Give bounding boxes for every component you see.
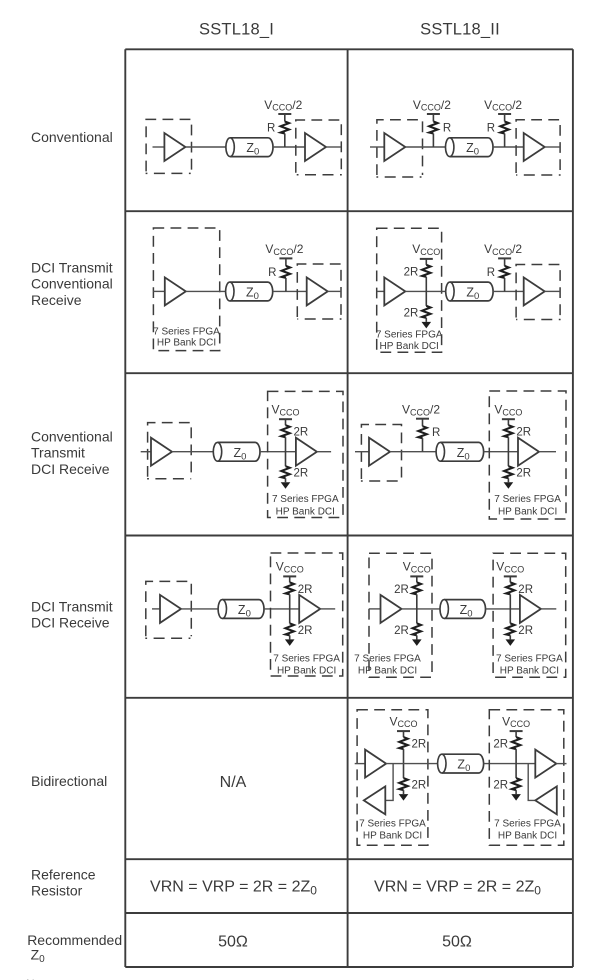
row label Reference Resistor <box>31 867 96 899</box>
DCI split termination, row2 SSTL18_II resistor 2R upper <box>404 259 433 292</box>
svg-text:VCCO/2: VCCO/2 <box>484 242 522 257</box>
transmission line Z0, row4 SSTL18_II <box>440 600 486 620</box>
svg-text:2R: 2R <box>516 427 531 439</box>
svg-text:VCCO: VCCO <box>389 714 417 729</box>
left DCI split termination, row5 SSTL18_II ground <box>399 794 409 801</box>
wire right driver branch, row5 SSTL18_II <box>528 764 535 801</box>
DCI split termination, row3 SSTL18_II resistor 2R upper <box>502 419 531 452</box>
transmission line Z0, row1 SSTL18_II <box>446 138 494 158</box>
svg-text:R: R <box>443 123 451 135</box>
driver buffer, row3 SSTL18_II <box>369 438 390 466</box>
svg-text:HP Bank DCI: HP Bank DCI <box>157 338 216 349</box>
wire Z0 to receiver, row3 SSTL18_I <box>260 451 296 453</box>
wire left receiver branch, row5 SSTL18_II <box>386 764 393 801</box>
far-end termination, row2 SSTL18_II resistor R <box>487 258 511 291</box>
svg-text:DCI Receive: DCI Receive <box>31 461 110 477</box>
wire Z0 to receiver, row4 SSTL18_II <box>486 608 520 610</box>
source termination, row3 SSTL18_II resistor R <box>416 419 440 452</box>
svg-text:VCCO/2: VCCO/2 <box>264 98 302 113</box>
DCI receive split termination, row4 SSTL18_II ground <box>506 639 516 646</box>
svg-text:2R: 2R <box>518 625 533 637</box>
transmission line Z0, row3 SSTL18_I <box>213 442 260 462</box>
wire Z0 to receiver, row1 SSTL18_I <box>273 146 305 148</box>
svg-text:VRN = VRP = 2R = 2Z0: VRN = VRP = 2R = 2Z0 <box>150 879 317 898</box>
svg-text:2R: 2R <box>404 266 419 278</box>
7 Series FPGA HP Bank DCI boundary (dashed box), row3 SSTL18_I <box>268 391 343 517</box>
DCI receive split termination, row4 SSTL18_II resistor 2R upper <box>504 576 533 609</box>
DCI transmit split termination, row4 SSTL18_II resistor 2R lower <box>394 609 421 640</box>
right DCI split termination, row5 SSTL18_II ground <box>511 794 521 801</box>
wire driver input, row2 SSTL18_I <box>153 290 164 292</box>
svg-text:VCCO: VCCO <box>276 560 304 575</box>
receiver buffer, row3 SSTL18_I <box>296 438 317 466</box>
svg-text:R: R <box>432 427 440 439</box>
svg-text:2R: 2R <box>412 739 427 751</box>
svg-text:VCCO/2: VCCO/2 <box>484 98 522 113</box>
7 Series FPGA HP Bank DCI boundary (dashed box), row4 SSTL18_I <box>271 553 343 676</box>
label 7 Series FPGA HP Bank DCI, row3 SSTL18_II <box>494 494 561 518</box>
svg-text:HP Bank DCI: HP Bank DCI <box>358 666 417 677</box>
DCI split termination, row2 SSTL18_II ground <box>422 322 432 329</box>
row label DCI Transmit DCI Receive <box>31 599 113 631</box>
wire Z0 to receiver, row2 SSTL18_I <box>273 290 307 292</box>
wire receiver output, row2 SSTL18_I <box>328 290 341 292</box>
transmission line Z0, row2 SSTL18_II <box>446 282 493 302</box>
row label DCI Transmit Conventional Receive <box>31 260 113 308</box>
svg-text:HP Bank DCI: HP Bank DCI <box>380 341 439 352</box>
wire driver to Z0, row2 SSTL18_II <box>405 290 445 292</box>
label 7 Series FPGA HP Bank DCI, row4 SSTL18_I <box>273 654 340 677</box>
svg-text:Recommended: Recommended <box>27 932 122 948</box>
svg-text:VCCO/2: VCCO/2 <box>402 403 440 418</box>
svg-text:SSTL18_II: SSTL18_II <box>420 20 500 38</box>
svg-text:R: R <box>487 267 495 279</box>
wire receiver output, row1 SSTL18_II <box>545 146 560 148</box>
row label Bidirectional <box>31 773 107 789</box>
svg-text:VCCO: VCCO <box>494 403 522 418</box>
wire left driver input, row5 SSTL18_II <box>355 763 365 765</box>
svg-text:2R: 2R <box>516 468 531 480</box>
receiver buffer, row1 SSTL18_I <box>305 133 326 161</box>
wire receiver output, row4 SSTL18_I <box>320 608 335 610</box>
DCI receive split termination, row4 SSTL18_II resistor 2R lower <box>506 609 533 640</box>
svg-text:7 Series FPGA: 7 Series FPGA <box>494 819 561 830</box>
DCI split termination, row4 SSTL18_I ground <box>285 639 295 646</box>
transmission line Z0, row5 SSTL18_II <box>438 754 484 774</box>
termination, row2 SSTL18_I resistor R <box>268 258 292 291</box>
label 7 Series FPGA HP Bank DCI transmit, row4 SSTL18_II <box>354 654 421 677</box>
svg-text:VCCO: VCCO <box>271 403 299 418</box>
receiver buffer, row2 SSTL18_I <box>307 277 328 305</box>
wire driver input, row1 SSTL18_I <box>153 146 165 148</box>
right DCI split termination, row5 SSTL18_II resistor 2R lower <box>493 764 520 795</box>
svg-text:2R: 2R <box>298 584 313 596</box>
svg-text:VCCO/2: VCCO/2 <box>413 98 451 113</box>
DCI split termination, row2 SSTL18_II resistor 2R lower <box>404 291 431 322</box>
svg-text:Conventional: Conventional <box>31 129 113 145</box>
receive chip boundary (dashed box), row1 SSTL18_II <box>516 120 561 175</box>
driver buffer, row1 SSTL18_I <box>164 133 185 161</box>
table grid <box>125 49 573 967</box>
svg-text:VCCO/2: VCCO/2 <box>265 242 303 257</box>
receiver buffer, row1 SSTL18_II <box>524 133 545 161</box>
right driver buffer, row5 SSTL18_II <box>535 786 557 814</box>
wire driver input, row3 SSTL18_I <box>141 451 151 453</box>
svg-text:2R: 2R <box>404 307 419 319</box>
row label Recommended Z0 <box>27 932 122 965</box>
DCI split termination, row3 SSTL18_I resistor 2R upper <box>279 419 308 452</box>
left DCI split termination, row5 SSTL18_II resistor 2R upper <box>397 731 426 764</box>
svg-text:Transmit: Transmit <box>31 445 85 461</box>
left DCI split termination, row5 SSTL18_II resistor 2R lower <box>399 764 426 795</box>
label 7 Series FPGA HP Bank DCI left, row5 SSTL18_II <box>359 819 426 842</box>
receive chip boundary (dashed box), row2 SSTL18_II <box>516 265 561 320</box>
transmit chip boundary (dashed box), row4 SSTL18_I <box>145 581 191 638</box>
svg-text:R: R <box>487 123 495 135</box>
transmit chip boundary (dashed box), row3 SSTL18_II <box>361 425 402 482</box>
DCI split termination, row4 SSTL18_I resistor 2R upper <box>283 576 312 609</box>
svg-text:7 Series FPGA: 7 Series FPGA <box>496 654 563 665</box>
driver buffer, row1 SSTL18_II <box>384 133 405 161</box>
svg-text:R: R <box>267 123 275 135</box>
driver buffer, row3 SSTL18_I <box>151 438 172 466</box>
wire driver input, row2 SSTL18_II <box>377 290 385 292</box>
wire Z0 to receiver, row4 SSTL18_I <box>264 608 299 610</box>
receiver buffer, row4 SSTL18_II <box>520 595 541 623</box>
label 7 Series FPGA HP Bank DCI receive, row4 SSTL18_II <box>496 654 563 677</box>
termination, row1 SSTL18_I resistor R <box>267 114 291 147</box>
svg-text:Receive: Receive <box>31 292 82 308</box>
wire right receiver output, row5 SSTL18_II <box>556 763 566 765</box>
svg-text:Z0: Z0 <box>31 947 46 966</box>
wire driver input, row4 SSTL18_II <box>369 608 381 610</box>
wire Z0 to right side, row5 SSTL18_II <box>484 763 536 765</box>
svg-text:2R: 2R <box>298 625 313 637</box>
svg-text:HP Bank DCI: HP Bank DCI <box>498 507 557 518</box>
wire driver input, row1 SSTL18_II <box>370 146 384 148</box>
receiver buffer, row4 SSTL18_I <box>299 595 320 623</box>
wire driver input, row3 SSTL18_II <box>355 451 369 453</box>
driver buffer, row2 SSTL18_I <box>165 277 186 305</box>
svg-text:2R: 2R <box>518 584 533 596</box>
7 Series FPGA HP Bank DCI boundary (dashed box), row2 SSTL18_II <box>377 228 442 352</box>
left driver buffer, row5 SSTL18_II <box>365 750 386 778</box>
transmission line Z0, row3 SSTL18_II <box>436 442 484 462</box>
wire Z0 to receiver, row3 SSTL18_II <box>484 451 518 453</box>
wire Z0 to receiver, row1 SSTL18_II <box>493 146 524 148</box>
svg-text:Bidirectional: Bidirectional <box>31 773 107 789</box>
svg-text:VRN = VRP = 2R = 2Z0: VRN = VRP = 2R = 2Z0 <box>374 879 541 898</box>
wire receiver output, row3 SSTL18_I <box>317 451 331 453</box>
driver buffer, row4 SSTL18_I <box>160 595 181 623</box>
wire driver to Z0, row3 SSTL18_I <box>172 451 213 453</box>
transmission line Z0, row2 SSTL18_I <box>226 282 273 302</box>
transmit chip boundary (dashed box), row1 SSTL18_I <box>146 119 192 173</box>
wire Z0 to receiver, row2 SSTL18_II <box>493 290 524 292</box>
left receiver buffer, row5 SSTL18_II <box>364 786 386 814</box>
label 7 Series FPGA HP Bank DCI, row2 SSTL18_II <box>376 329 443 352</box>
DCI split termination, row3 SSTL18_II ground <box>504 482 514 489</box>
label 7 Series FPGA HP Bank DCI, row2 SSTL18_I <box>153 327 220 349</box>
svg-text:2R: 2R <box>394 584 409 596</box>
svg-text:50Ω: 50Ω <box>218 934 248 951</box>
wire driver to Z0, row4 SSTL18_II <box>402 608 440 610</box>
label 7 Series FPGA HP Bank DCI, row3 SSTL18_I <box>272 494 339 518</box>
svg-text:HP Bank DCI: HP Bank DCI <box>500 666 559 677</box>
receiver buffer, row2 SSTL18_II <box>524 277 545 305</box>
transmission line Z0, row4 SSTL18_I <box>218 600 264 620</box>
DCI transmit split termination, row4 SSTL18_II ground <box>412 639 422 646</box>
right receiver buffer, row5 SSTL18_II <box>535 750 556 778</box>
svg-text:R: R <box>268 267 276 279</box>
receive chip boundary (dashed box), row1 SSTL18_I <box>296 120 342 175</box>
svg-text:VCCO: VCCO <box>403 560 431 575</box>
wire driver to Z0, row1 SSTL18_II <box>405 146 445 148</box>
svg-text:HP Bank DCI: HP Bank DCI <box>277 666 336 677</box>
svg-text:7 Series FPGA: 7 Series FPGA <box>153 327 220 338</box>
DCI transmit split termination, row4 SSTL18_II resistor 2R upper <box>394 576 423 609</box>
DCI split termination, row3 SSTL18_I resistor 2R lower <box>281 452 308 483</box>
DCI split termination, row3 SSTL18_I ground <box>281 482 291 489</box>
receiver buffer, row3 SSTL18_II <box>518 438 539 466</box>
row label Conventional Transmit DCI Receive <box>31 429 113 477</box>
source termination, row1 SSTL18_II resistor R <box>427 114 451 147</box>
row label Conventional <box>31 129 113 145</box>
wire left driver to Z0, row5 SSTL18_II <box>386 763 437 765</box>
DCI split termination, row4 SSTL18_I resistor 2R lower <box>286 609 313 640</box>
transmit chip boundary (dashed box), row3 SSTL18_I <box>147 423 191 479</box>
wire receiver output, row2 SSTL18_II <box>545 290 560 292</box>
svg-text:7 Series FPGA: 7 Series FPGA <box>376 329 443 340</box>
svg-text:7 Series FPGA: 7 Series FPGA <box>494 494 561 505</box>
7 Series FPGA HP Bank DCI boundary (dashed box), row3 SSTL18_II <box>489 391 566 519</box>
svg-text:SSTL18_I: SSTL18_I <box>199 20 274 38</box>
right 7 Series FPGA HP Bank DCI boundary (dashed box), row5 SSTL18_II <box>489 710 564 845</box>
svg-text:Conventional: Conventional <box>31 276 113 292</box>
svg-text:DCI Transmit: DCI Transmit <box>31 260 113 276</box>
wire receiver output, row1 SSTL18_I <box>326 146 341 148</box>
driver buffer, row2 SSTL18_II <box>384 277 405 305</box>
svg-text:VCCO: VCCO <box>496 560 524 575</box>
svg-text:50Ω: 50Ω <box>442 934 472 951</box>
svg-text:Conventional: Conventional <box>31 429 113 445</box>
svg-text:HP Bank DCI: HP Bank DCI <box>498 831 557 842</box>
svg-text:VCCO: VCCO <box>412 242 440 257</box>
svg-text:2R: 2R <box>412 780 427 792</box>
svg-text:7 Series FPGA: 7 Series FPGA <box>354 654 421 665</box>
wire receiver output, row3 SSTL18_II <box>539 451 556 453</box>
svg-text:7 Series FPGA: 7 Series FPGA <box>272 494 339 505</box>
svg-text:DCI Receive: DCI Receive <box>31 615 110 631</box>
transmission line Z0, row1 SSTL18_I <box>226 138 273 158</box>
svg-text:Reference: Reference <box>31 867 96 883</box>
svg-text:2R: 2R <box>493 780 508 792</box>
svg-text:7 Series FPGA: 7 Series FPGA <box>273 654 340 665</box>
wire driver to Z0, row3 SSTL18_II <box>390 451 436 453</box>
left 7 Series FPGA HP Bank DCI boundary (dashed box), row5 SSTL18_II <box>357 710 428 845</box>
svg-text:Resistor: Resistor <box>31 883 83 899</box>
svg-text:HP Bank DCI: HP Bank DCI <box>363 831 422 842</box>
receive 7 Series FPGA HP Bank DCI boundary (dashed box), row4 SSTL18_II <box>493 553 566 677</box>
wire driver input, row4 SSTL18_I <box>152 608 160 610</box>
label 7 Series FPGA HP Bank DCI right, row5 SSTL18_II <box>494 819 561 842</box>
right DCI split termination, row5 SSTL18_II resistor 2R upper <box>493 731 522 764</box>
driver buffer, row4 SSTL18_II <box>381 595 402 623</box>
svg-text:VCCO: VCCO <box>502 714 530 729</box>
svg-text:HP Bank DCI: HP Bank DCI <box>276 507 335 518</box>
svg-text:N/A: N/A <box>220 774 247 791</box>
DCI split termination, row3 SSTL18_II resistor 2R lower <box>504 452 531 483</box>
svg-text:2R: 2R <box>394 625 409 637</box>
svg-text:2R: 2R <box>294 468 309 480</box>
transmit chip boundary (dashed box), row1 SSTL18_II <box>376 120 422 177</box>
wire driver to Z0, row1 SSTL18_I <box>185 146 225 148</box>
svg-text:2R: 2R <box>493 739 508 751</box>
wire driver to Z0, row4 SSTL18_I <box>181 608 218 610</box>
far-end termination, row1 SSTL18_II resistor R <box>487 114 511 147</box>
7 Series FPGA HP Bank DCI boundary (dashed box), row2 SSTL18_I <box>153 228 219 351</box>
wire receiver output, row4 SSTL18_II <box>541 608 556 610</box>
wire driver to Z0, row2 SSTL18_I <box>186 290 226 292</box>
receive chip boundary (dashed box), row2 SSTL18_I <box>297 264 341 319</box>
svg-text:DCI Transmit: DCI Transmit <box>31 599 113 615</box>
transmit 7 Series FPGA HP Bank DCI boundary (dashed box), row4 SSTL18_II <box>369 553 432 677</box>
svg-text:7 Series FPGA: 7 Series FPGA <box>359 819 426 830</box>
